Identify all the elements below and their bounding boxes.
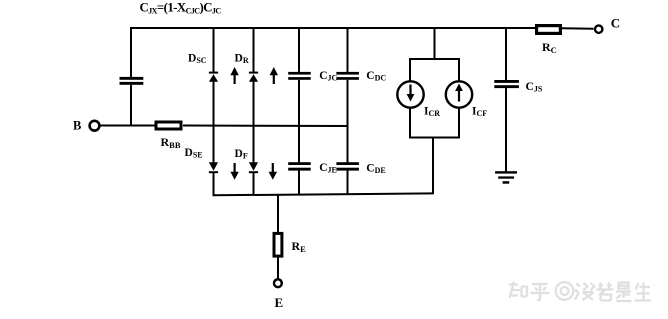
若 xyxy=(597,283,614,301)
淡 xyxy=(575,283,595,300)
svg-text:DSE: DSE xyxy=(185,147,203,160)
wire middle (base internal node) xyxy=(183,125,348,128)
svg-text:RC: RC xyxy=(542,40,557,55)
svg-text:DR: DR xyxy=(235,53,249,66)
watermark 知乎 @淡若是生 xyxy=(509,282,651,302)
arrow up (beside DR) xyxy=(270,67,278,84)
svg-text:RE: RE xyxy=(292,239,307,254)
node B terminal xyxy=(73,118,99,132)
capacitor CJC xyxy=(288,70,337,83)
svg-text:DF: DF xyxy=(235,148,248,161)
capacitor CJS xyxy=(494,80,543,94)
svg-text:CJX=(1-XCJC)CJC: CJX=(1-XCJC)CJC xyxy=(140,1,222,16)
wire emitter stem xyxy=(277,194,279,233)
wire top horizontal xyxy=(130,27,594,30)
arrow down (beside DF) xyxy=(269,163,277,180)
svg-text:DSC: DSC xyxy=(188,53,207,66)
current source box wires xyxy=(410,58,459,194)
node E terminal xyxy=(274,279,283,310)
svg-text:RBB: RBB xyxy=(161,135,181,150)
@ xyxy=(556,282,574,300)
知 xyxy=(509,282,527,299)
生 xyxy=(635,283,652,301)
resistor RE xyxy=(274,233,306,256)
capacitor CJS branch wire xyxy=(505,28,507,172)
capacitor CJC / CJE branch wire xyxy=(298,28,300,195)
svg-text:CDC: CDC xyxy=(366,70,386,83)
svg-text:E: E xyxy=(275,295,284,310)
capacitor CDE xyxy=(336,162,385,175)
capacitor CJE xyxy=(288,162,337,175)
diode DSC xyxy=(188,53,218,82)
wire RE to E xyxy=(277,258,279,279)
current source ICR xyxy=(397,81,440,118)
svg-text:CJE: CJE xyxy=(319,162,337,175)
diode DSE xyxy=(185,147,219,173)
svg-text:CJC: CJC xyxy=(319,70,337,83)
arrow down (beside DSE) xyxy=(230,163,238,180)
是 xyxy=(616,283,632,302)
ground xyxy=(495,171,517,184)
svg-text:CJS: CJS xyxy=(526,81,543,94)
diode DSC branch wire xyxy=(213,28,215,196)
svg-text:ICR: ICR xyxy=(424,106,440,119)
diode DR xyxy=(235,53,259,82)
capacitor CDC xyxy=(336,70,386,83)
svg-text:C: C xyxy=(611,16,620,31)
node C terminal xyxy=(595,16,620,33)
wire bottom (emitter internal node) xyxy=(213,193,434,195)
resistor RC xyxy=(537,26,561,55)
wire B to RBB xyxy=(100,125,157,127)
capacitor CJX (left branch) xyxy=(120,28,144,127)
capacitor CDC / CDE branch wire xyxy=(347,28,349,195)
current source ICF xyxy=(446,81,487,118)
resistor RBB xyxy=(156,122,181,150)
svg-text:ICF: ICF xyxy=(472,106,487,119)
arrow up (reverse current, beside DSC) xyxy=(230,67,238,84)
乎 xyxy=(531,284,550,300)
wire stem to current sources xyxy=(434,28,436,59)
diode DR branch wire xyxy=(253,28,255,195)
svg-text:CDE: CDE xyxy=(366,163,385,176)
svg-text:B: B xyxy=(73,118,81,132)
diode DF xyxy=(235,148,259,173)
